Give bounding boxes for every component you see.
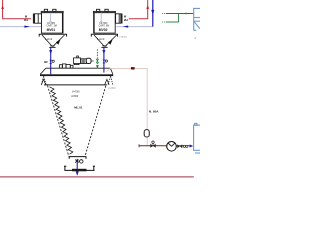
svg-text:Ød: Ød (124, 18, 128, 22)
pipe faint dust return line (107, 68, 148, 145)
label M Od left (24, 15, 28, 22)
bracket triangle right (105, 79, 110, 85)
svg-text:CART. 3M: CART. 3M (46, 25, 57, 28)
arrow navy right (24, 26, 29, 28)
valve green on additive line (96, 59, 98, 63)
mixer lid slab (40, 68, 113, 74)
svg-text:uf: uf (194, 37, 196, 40)
svg-text:MV01: MV01 (47, 28, 56, 32)
support legs dashed right (108, 76, 113, 85)
valve BF1 on outlet MV01 (49, 60, 52, 64)
screw auger zigzag (49, 87, 72, 154)
label text inside MV02 (99, 23, 110, 28)
vessel MV02 cone (94, 35, 117, 47)
pipe navy drop right (152, 0, 154, 27)
svg-text:ML.01: ML.01 (74, 106, 83, 110)
arrow navy into tank (190, 145, 194, 148)
valve V2 after pump (177, 144, 182, 148)
vessel MV01 flange (39, 34, 67, 36)
svg-text:1,2m3: 1,2m3 (97, 37, 105, 41)
pipe red vent line left (3, 0, 31, 19)
arrow down outlet MV01 (49, 50, 52, 54)
svg-text:N. 95A: N. 95A (149, 109, 159, 113)
arrow green down onto lid (96, 65, 99, 69)
arrow navy down (151, 10, 154, 15)
svg-text:CART. 3M: CART. 3M (99, 25, 110, 28)
discharge spool (64, 166, 95, 170)
pipe blue discharge (76, 159, 78, 172)
svg-text:V=750 l: V=750 l (72, 90, 81, 93)
vessel MV01 side filter box (35, 14, 42, 23)
mixer cone dashed left edge (48, 86, 69, 157)
vessel MV02 flange (91, 34, 118, 36)
vessel MV02 side filter box right (116, 14, 121, 23)
support legs dashed left (41, 76, 46, 85)
vessel MV01 lid (41, 9, 63, 12)
mixer flange rim (44, 84, 107, 86)
arrow navy left (123, 26, 128, 28)
bracket triangle left (41, 79, 46, 85)
svg-text:L=4500: L=4500 (108, 88, 116, 90)
label M Od right (124, 15, 128, 22)
vessel MV02 body (94, 13, 116, 33)
arrow blue down discharge (76, 171, 79, 175)
arrow red up left (1, 5, 4, 8)
mixer cone dashed right edge (85, 86, 106, 157)
pipe blue feed line right (117, 26, 153, 28)
filter element internal MV02 (100, 13, 102, 22)
motor drive assembly on lid (60, 56, 87, 68)
svg-text:Ød: Ød (24, 18, 28, 22)
pipe pump suction line (139, 145, 190, 147)
arrow inlet MV02 (108, 40, 113, 45)
vessel MV01 cone (42, 35, 65, 47)
label text inside MV01 (46, 23, 57, 28)
vessel MV02 lid (93, 9, 115, 12)
filter element internal (49, 13, 51, 22)
vessel MV01 body (42, 13, 64, 33)
pipe blue feed line left (0, 26, 42, 28)
pipe blue outlet MV01 (50, 48, 52, 75)
arrow green right (186, 13, 189, 15)
arrow inlet MV01 (56, 40, 61, 45)
svg-text:BF: BF (44, 60, 48, 64)
floor line red (0, 176, 194, 178)
pipe red vent line right (129, 0, 148, 19)
svg-text:A=860: A=860 (71, 95, 79, 98)
arrow red up right (146, 5, 149, 8)
valve BF2 on outlet MV02 (103, 48, 105, 73)
pipe green exhaust lines top right (162, 14, 194, 23)
marker red on dust line (131, 67, 135, 69)
pipe green additive line (96, 49, 98, 65)
pump P1 (167, 142, 177, 152)
valve V1 before pump (150, 144, 155, 148)
butterfly valve outlet (75, 160, 79, 163)
svg-text:1,2m3: 1,2m3 (45, 37, 53, 41)
instrument capsule left of green valve (86, 58, 91, 63)
mixer outlet flange (69, 157, 87, 159)
labels inside mixer cone (71, 90, 80, 98)
unit cyclone filter top right (194, 8, 200, 30)
svg-text:MV02: MV02 (99, 28, 108, 32)
tank right edge (194, 123, 200, 153)
flex hose capsule (144, 130, 149, 137)
svg-text:L=8505: L=8505 (119, 37, 127, 39)
